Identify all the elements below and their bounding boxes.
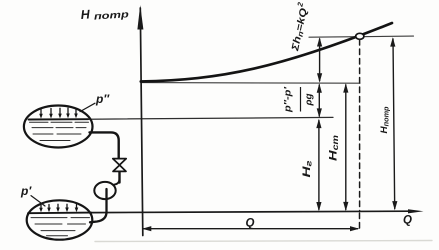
svg-text:p″-p′: p″-p′	[283, 86, 294, 113]
svg-text:p″: p″	[95, 92, 110, 106]
svg-text:потр: потр	[94, 9, 130, 22]
svg-text:Q: Q	[403, 215, 412, 227]
svg-text:p′: p′	[20, 184, 32, 198]
svg-text:Н: Н	[80, 7, 91, 22]
svg-text:Нпотр: Нпотр	[379, 106, 390, 134]
svg-text:Q: Q	[246, 218, 255, 230]
svg-text:ρg: ρg	[304, 93, 315, 106]
svg-text:Нст: Нст	[328, 135, 341, 161]
svg-text:2: 2	[295, 1, 305, 9]
svg-text:Нг: Нг	[301, 160, 314, 178]
svg-text:Σhп=kQ: Σhп=kQ	[290, 7, 310, 53]
